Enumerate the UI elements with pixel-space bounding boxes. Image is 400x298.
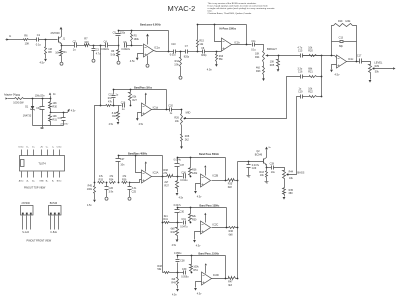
svg-text:R32: R32 <box>16 94 21 97</box>
wire IC1a V+ pin <box>147 37 149 45</box>
svg-text:6k8: 6k8 <box>228 186 233 189</box>
wire feedback top line 1khz <box>113 89 167 91</box>
capacitor C30 feedback 130hz <box>174 204 185 222</box>
capacitor C17 <box>357 55 362 64</box>
svg-text:C25: C25 <box>132 190 137 193</box>
wire R7 to C3 node <box>90 45 106 47</box>
svg-text:C37: C37 <box>180 164 185 167</box>
wire 4.5v rail <box>51 112 68 114</box>
svg-text:0.014u: 0.014u <box>174 159 182 162</box>
wire rail vertical <box>237 162 239 279</box>
resistor R23 <box>256 67 265 79</box>
svg-text:0.1u: 0.1u <box>36 43 42 47</box>
wire feedback column hi-pass <box>246 25 248 45</box>
resistor R45 bass <box>283 188 294 197</box>
svg-text:LEVEL: LEVEL <box>374 60 383 64</box>
svg-text:R49: R49 <box>171 282 176 285</box>
capacitor C26 <box>105 183 114 196</box>
node IC2A output <box>162 176 164 178</box>
label Band Pass 130Hz <box>200 205 221 208</box>
node A junction 6.5k <box>118 45 120 47</box>
ground below R14 <box>179 75 182 80</box>
svg-text:IC1a: IC1a <box>154 46 160 50</box>
svg-text:R30: R30 <box>53 106 58 109</box>
transistor Q1 2N7000 <box>51 31 66 43</box>
resistor R32 <box>13 94 24 104</box>
capacitor C28 <box>267 162 276 174</box>
svg-text:R19: R19 <box>338 20 343 23</box>
svg-text:IC2D: IC2D <box>213 273 219 277</box>
resistor R28 <box>181 135 190 147</box>
svg-text:4.5v: 4.5v <box>172 293 177 296</box>
svg-text:MYAC-2: MYAC-2 <box>168 4 196 13</box>
svg-text:4.5v: 4.5v <box>130 59 136 63</box>
node main bus tap <box>100 45 102 47</box>
capacitor C25 <box>128 183 137 196</box>
resistor R47b feedback 110hz <box>190 256 200 274</box>
svg-text:tone.: tone. <box>208 9 213 12</box>
svg-text:4.5v: 4.5v <box>196 244 201 247</box>
wire Q2 emitter down <box>266 165 268 168</box>
node LEVEL wiper <box>373 68 375 70</box>
resistor R16 <box>216 52 218 65</box>
wire C17 to LEVEL pot <box>362 62 371 65</box>
svg-text:C31: C31 <box>58 117 63 120</box>
wire C4 to node A <box>108 45 118 47</box>
node IC1c output <box>356 61 358 63</box>
power 4.5v below IC2C plus <box>193 240 201 247</box>
label BandPass 400Hz <box>128 152 148 155</box>
svg-text:C17: C17 <box>357 55 362 58</box>
svg-text:4.5v: 4.5v <box>197 292 202 295</box>
label Band Pass 110Hz <box>199 253 220 256</box>
power 4.5v below IC1a plus <box>130 58 139 63</box>
resistor R37 shunt 560hz <box>164 177 178 193</box>
node R25 tap <box>278 55 280 57</box>
resistor R35b 400hz <box>122 175 128 184</box>
title MYAC-2 <box>168 4 196 13</box>
svg-text:R44: R44 <box>289 170 294 173</box>
ground below R9 <box>117 60 120 65</box>
resistor R6 <box>24 33 30 45</box>
label LEVEL <box>374 60 383 64</box>
svg-text:Hi-Pass 15Khz: Hi-Pass 15Khz <box>220 27 237 30</box>
resistor R20 row1 <box>308 46 316 56</box>
svg-text:4.5v: 4.5v <box>139 123 144 126</box>
svg-text:IC2C: IC2C <box>212 222 218 226</box>
wire IC2C output <box>212 227 229 229</box>
svg-text:C20: C20 <box>168 105 173 108</box>
svg-text:BandPass 400Hz: BandPass 400Hz <box>128 152 148 155</box>
svg-text:4.5v: 4.5v <box>172 244 177 247</box>
node IC1b output <box>246 44 248 46</box>
package BC546 pinout <box>49 202 62 234</box>
wire IC2A output <box>152 176 163 178</box>
wire below LEVEL pot <box>370 73 372 80</box>
svg-text:4.5v: 4.5v <box>335 72 341 76</box>
svg-text:Band pass 6.5KHz: Band pass 6.5KHz <box>140 23 162 26</box>
resistor R31 <box>49 115 58 126</box>
label PINOUT TOP VIEW <box>24 186 46 189</box>
resistor R49 shunt 110hz <box>171 273 178 289</box>
capacitor C36 <box>180 171 188 181</box>
svg-text:4.5v: 4.5v <box>40 60 46 64</box>
node C3 junction <box>93 45 95 47</box>
resistor R1 source <box>55 46 67 61</box>
node IC1a output <box>168 51 170 53</box>
svg-text:0.014u: 0.014u <box>180 179 188 182</box>
resistor R43 <box>259 168 267 181</box>
power 9v arrow above IC2B <box>204 165 206 167</box>
svg-text:R42: R42 <box>171 231 176 234</box>
capacitor C21 feedback 1khz <box>108 90 118 106</box>
svg-text:R18: R18 <box>112 115 117 118</box>
resistor R8 <box>45 40 53 59</box>
power 9v arrow above IC2C <box>204 213 206 215</box>
svg-text:AOut: AOut <box>19 179 24 182</box>
svg-text:IC1c: IC1c <box>348 57 354 61</box>
svg-text:D-: D- <box>26 147 28 149</box>
svg-text:160k: 160k <box>134 38 140 41</box>
label Hi-Pass 15Khz <box>220 27 237 30</box>
power 4.5v below R42 <box>172 240 179 247</box>
wire C8 to IC1b plus <box>205 51 222 53</box>
wire IC2B plus to 4.5v <box>196 184 201 191</box>
capacitor C31 <box>58 113 69 126</box>
node IC1d output <box>166 109 168 111</box>
power 4.5v below IC1d plus <box>136 118 144 126</box>
capacitor C39 <box>181 268 189 278</box>
node 400hz C27 junction <box>118 182 120 184</box>
svg-text:R24: R24 <box>255 56 260 59</box>
power 4.5v below IC2D plus <box>194 288 202 295</box>
power 4.5v below bias R <box>87 200 96 207</box>
wire bus3 corner to R48 <box>163 272 164 274</box>
svg-text:R22: R22 <box>308 91 313 94</box>
node 4.5v junction <box>50 112 52 114</box>
resistor R33 400hz <box>98 175 105 184</box>
power 9v arrow above IC1d <box>145 93 147 95</box>
resistor R14 <box>174 52 181 75</box>
ground below R28 <box>180 146 183 149</box>
svg-text:2N7000: 2N7000 <box>51 31 61 35</box>
svg-text:C38: C38 <box>180 260 185 263</box>
IC TL074 pinout bottom pins <box>19 172 62 183</box>
capacitor C27 feedback 400hz <box>116 156 126 183</box>
power 4.5v below IC2B plus <box>194 191 202 198</box>
svg-text:0.1u: 0.1u <box>251 49 256 52</box>
wire IC1a output <box>154 51 169 52</box>
svg-text:68p: 68p <box>339 45 344 48</box>
svg-text:4.5v: 4.5v <box>109 123 114 126</box>
resistor R25 <box>270 56 280 70</box>
ground below IC1a <box>146 63 149 68</box>
potentiometer R26 MID <box>174 114 186 126</box>
ground below C3 <box>92 58 95 63</box>
wire row2 from MID <box>185 77 301 119</box>
node 560hz junction <box>177 176 179 178</box>
svg-text:120k: 120k <box>345 20 351 23</box>
capacitor C38 feedback 110hz <box>174 252 185 272</box>
resistor R21 row2 <box>303 56 322 97</box>
svg-text:IC1b: IC1b <box>234 41 240 45</box>
svg-text:10u: 10u <box>271 171 276 174</box>
resistor R38 560hz <box>163 169 183 178</box>
svg-text:C27: C27 <box>120 158 125 161</box>
capacitor C16 row2 <box>298 67 303 78</box>
node R16 junction <box>216 51 218 53</box>
svg-text:Christian Briere, 7Jan/2005,: Christian Briere, 7Jan/2005, Quebec,Cana… <box>208 12 252 15</box>
power 4.5v arrow PSU <box>67 109 76 113</box>
svg-text:COut: COut <box>57 146 62 149</box>
svg-text:R8: R8 <box>48 50 52 54</box>
svg-text:R36: R36 <box>122 178 127 181</box>
wire IC1c output <box>347 61 360 63</box>
node BASS wiper <box>287 174 289 176</box>
node 130hz to rail <box>237 227 239 229</box>
node R14 junction <box>180 51 182 53</box>
resistor R5 feedback <box>131 31 140 47</box>
node 400hz input junction <box>94 182 96 184</box>
potentiometer R29 LEVEL <box>369 65 380 74</box>
svg-text:2N7000: 2N7000 <box>22 202 31 205</box>
svg-text:MID: MID <box>186 111 191 115</box>
node D1 junction <box>32 98 34 100</box>
ground below R43 <box>265 181 269 184</box>
resistor R41 130hz <box>163 215 182 224</box>
wire feedback column 6.5k <box>168 31 170 52</box>
wire IC2C plus to 4.5v <box>195 232 201 240</box>
wire IC2D output <box>212 278 229 280</box>
svg-text:BRIGHT: BRIGHT <box>267 47 277 51</box>
node 560hz to rail <box>237 180 239 182</box>
node MID top <box>181 109 183 111</box>
svg-text:PINOUT TOP VIEW: PINOUT TOP VIEW <box>24 186 46 189</box>
resistor R19 feedback summing <box>331 20 357 62</box>
svg-text:6k8: 6k8 <box>229 233 234 236</box>
label BRIGHT <box>267 47 277 51</box>
wire feedback top line 6.5k <box>118 30 169 32</box>
capacitor C7 <box>184 45 190 59</box>
power 9v arrow PSU <box>49 93 57 96</box>
wire source to C2 <box>62 45 75 47</box>
ground below R45 <box>283 197 286 200</box>
wire to IC2A plus <box>130 180 142 183</box>
svg-text:R6: R6 <box>24 33 28 37</box>
op-amp IC2C <box>201 221 219 234</box>
svg-text:120k: 120k <box>192 172 198 175</box>
svg-text:100: 100 <box>84 40 89 44</box>
svg-text:5.6k: 5.6k <box>111 54 116 57</box>
wire C2 to R7 <box>77 45 85 47</box>
capacitor C2 <box>73 39 77 51</box>
wire Q1 source down <box>61 44 63 46</box>
wire IC1c plus to 4.5v <box>332 65 337 70</box>
resistor R27 feedback 1khz <box>129 90 138 107</box>
svg-text:C30: C30 <box>180 210 185 213</box>
power 9v arrow above IC2D <box>205 263 207 265</box>
capacitor C15 row1 <box>298 46 303 57</box>
svg-text:C19: C19 <box>298 91 303 94</box>
svg-text:R21: R21 <box>308 71 313 74</box>
wire row3 from BASS <box>288 97 301 175</box>
svg-text:820p: 820p <box>201 54 207 57</box>
potentiometer R24 BRIGHT <box>255 51 268 63</box>
svg-text:R20: R20 <box>308 50 313 53</box>
node Q2 emitter junction <box>266 167 268 169</box>
svg-text:TL074: TL074 <box>38 161 46 165</box>
power 4.5v below R49 <box>172 289 179 296</box>
label BandPass 1Khz <box>134 87 153 90</box>
label Adapter 9V <box>4 93 16 96</box>
svg-text:R41: R41 <box>163 218 168 221</box>
svg-text:R1: R1 <box>63 50 67 54</box>
wire feedback column 1khz <box>166 90 168 110</box>
ground below C29 <box>247 174 251 178</box>
label BASS <box>297 171 304 175</box>
IC TL074 pinout box <box>20 156 65 172</box>
power 4.5v below R18 <box>109 122 120 126</box>
svg-text:100u/25v: 100u/25v <box>35 94 46 97</box>
op-amp IC2A <box>142 170 159 183</box>
wire feedback column 110hz <box>225 256 227 279</box>
svg-text:IC2A: IC2A <box>153 170 159 174</box>
power 4.5v below R16 <box>207 55 224 72</box>
svg-text:C15: C15 <box>298 50 303 53</box>
wire C7 to C8 <box>188 51 203 53</box>
wire IC2A minus to feedback <box>136 156 142 173</box>
node BRIGHT wiper <box>267 55 269 57</box>
power 9v arrow above IC1a <box>146 34 149 37</box>
power 4.5v below IC1c <box>330 70 340 77</box>
wire IC1a plus to 4.5v <box>138 54 144 58</box>
svg-text:BC546: BC546 <box>50 202 58 205</box>
svg-text:Adapter 9V: Adapter 9V <box>4 93 16 96</box>
wire Q2 collector to 9v <box>266 150 268 158</box>
svg-text:C-: C- <box>52 147 54 149</box>
svg-text:820p: 820p <box>184 56 190 59</box>
svg-text:C18: C18 <box>121 102 126 105</box>
svg-text:100k: 100k <box>87 188 93 191</box>
svg-text:C39: C39 <box>182 268 187 271</box>
svg-text:4.5v: 4.5v <box>87 204 92 207</box>
wire BRIGHT wiper to summing row1 <box>268 55 335 57</box>
svg-text:C1: C1 <box>37 33 41 37</box>
resistor R29b bias <box>87 183 96 200</box>
node 400hz C26 junction <box>106 182 108 184</box>
capacitor C8 <box>201 47 207 57</box>
capacitor C6 <box>121 41 130 51</box>
resistor R47 output 110hz <box>228 277 237 287</box>
IC TL074 pinout top pins <box>19 146 62 156</box>
svg-text:3.9n: 3.9n <box>109 190 114 193</box>
wire feedback column 560hz <box>225 158 227 181</box>
svg-text:Band Pass 560Hz: Band Pass 560Hz <box>199 153 220 156</box>
wire LEVEL wiper to out <box>374 68 393 70</box>
capacitor C5 feedback <box>113 31 126 46</box>
svg-text:R23: R23 <box>256 70 261 73</box>
wire below MID pot <box>181 126 183 135</box>
resistor R48 110hz <box>157 265 183 274</box>
resistor R35 output 560hz <box>228 179 238 189</box>
capacitor C1 <box>36 33 42 47</box>
node Out arrow <box>393 67 396 69</box>
capacitor C10 output 6.5k <box>169 43 177 56</box>
power 4.5v below R37 <box>176 193 184 199</box>
label MID <box>186 111 191 115</box>
svg-text:0.056u: 0.056u <box>181 275 189 278</box>
ground below R23 <box>262 78 265 81</box>
svg-text:R29: R29 <box>375 65 380 68</box>
wire feedback top line 110hz <box>177 255 226 257</box>
wire IC1a V- pin <box>147 56 149 63</box>
op-amp IC1d <box>142 103 159 116</box>
capacitor C29 <box>247 162 260 174</box>
svg-text:C36: C36 <box>181 171 186 174</box>
svg-text:R25: R25 <box>270 64 275 67</box>
svg-text:0.01u: 0.01u <box>170 53 177 56</box>
svg-text:10k: 10k <box>55 50 60 54</box>
wire feedback top line 130hz <box>177 207 227 209</box>
wire main bus upper <box>100 46 102 106</box>
wire C10 to R14 node <box>176 51 186 53</box>
svg-text:2k2: 2k2 <box>185 139 190 142</box>
wire IC2D V+ pin <box>205 266 207 274</box>
capacitor C3 <box>92 46 102 58</box>
svg-text:3k3: 3k3 <box>228 284 233 287</box>
svg-text:a single coil electric guitar: a single coil electric guitar (neck pick… <box>208 7 276 10</box>
resistor R7 <box>84 37 89 47</box>
svg-text:3.9k: 3.9k <box>174 64 179 67</box>
svg-text:1N4733: 1N4733 <box>23 115 32 118</box>
svg-text:DOut: DOut <box>19 146 24 149</box>
svg-text:220p: 220p <box>120 31 126 34</box>
wire R6 to C1 <box>29 39 37 41</box>
wire feedback column 400hz <box>162 156 164 177</box>
svg-text:R37: R37 <box>164 185 169 188</box>
description text block <box>208 2 276 15</box>
ground below R25 <box>277 69 280 72</box>
ground PSU <box>41 126 44 129</box>
node 400hz C25 junction <box>129 182 131 184</box>
power 9v arrow above Q2 <box>265 147 272 150</box>
node MID wiper <box>184 118 186 120</box>
node 1khz input junction <box>100 105 102 107</box>
node 110hz to rail <box>237 278 239 280</box>
ground below R1 <box>60 61 63 66</box>
wire feedback top line hi-pass <box>197 24 247 26</box>
op-amp IC1a <box>144 44 161 57</box>
resistor R15 feedback <box>197 25 205 52</box>
wire C1 to gate node <box>39 39 58 41</box>
svg-text:IC2B: IC2B <box>212 173 218 177</box>
op-amp IC1b <box>222 38 241 51</box>
svg-text:4.5v: 4.5v <box>207 68 213 72</box>
svg-text:1M: 1M <box>48 47 52 51</box>
svg-text:10n: 10n <box>120 163 125 166</box>
wire IC2A V+ pin <box>145 164 147 172</box>
wire main bus jog <box>95 106 101 183</box>
power 9v arrow above Q1 <box>60 27 63 30</box>
svg-text:C-B-E: C-B-E <box>50 231 57 234</box>
node B junction 1khz <box>113 105 115 107</box>
svg-text:S-G-D: S-G-D <box>22 231 29 234</box>
ground below C25 <box>128 196 131 201</box>
node In input jack <box>6 34 12 41</box>
svg-text:C13: C13 <box>339 37 344 40</box>
svg-text:R50: R50 <box>192 218 197 221</box>
svg-text:R51: R51 <box>193 269 198 272</box>
